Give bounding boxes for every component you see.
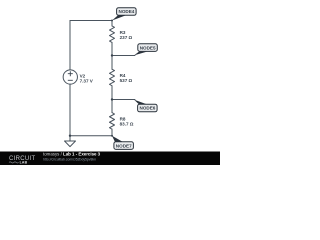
svg-text:LAB: LAB <box>20 161 28 165</box>
svg-text:NODE6: NODE6 <box>140 106 156 111</box>
svg-text:V2: V2 <box>80 73 86 78</box>
svg-text:tomasys / Lab 1 - Exercise 3: tomasys / Lab 1 - Exercise 3 <box>43 151 101 156</box>
svg-text:NODE7: NODE7 <box>116 143 132 148</box>
svg-text:NODE4: NODE4 <box>119 9 135 14</box>
svg-text:537 Ω: 537 Ω <box>120 78 133 83</box>
svg-text:htto://circuitlab.com/c/52bdy5: htto://circuitlab.com/c/52bdy5pv8kn <box>43 157 96 161</box>
svg-text:7.37 V: 7.37 V <box>80 79 94 84</box>
svg-text:237 Ω: 237 Ω <box>120 35 133 40</box>
svg-text:83.7 Ω: 83.7 Ω <box>120 121 134 126</box>
svg-text:NODE5: NODE5 <box>140 45 156 50</box>
